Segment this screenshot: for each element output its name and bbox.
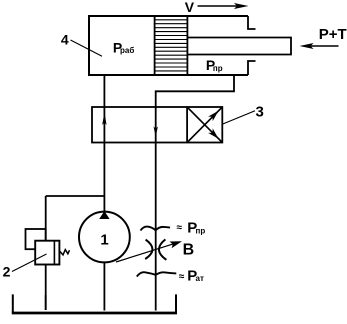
throttle B left arc	[145, 240, 152, 259]
relief valve 2 body	[35, 241, 59, 265]
piston rod	[187, 38, 291, 55]
wire: relief valve line into tank	[45, 295, 47, 310]
wire: branch to relief valve	[46, 195, 105, 197]
svg-text:4: 4	[61, 31, 69, 47]
svg-text:В: В	[183, 241, 195, 258]
leader line 4	[71, 40, 103, 56]
svg-text:≈: ≈	[179, 271, 185, 282]
svg-text:3: 3	[256, 103, 264, 120]
svg-text:P+T: P+T	[319, 26, 347, 43]
pump 1 circle	[79, 212, 130, 263]
wire: cylinder rod chamber to valve	[156, 75, 234, 107]
wire: pump suction to tank	[103, 262, 105, 310]
piston hatch lines	[155, 20, 188, 71]
valve 3 body	[92, 107, 222, 143]
valve X diagonals	[187, 107, 222, 143]
leader line 3	[223, 111, 255, 124]
svg-text:V: V	[185, 0, 195, 15]
relief valve spring	[60, 250, 70, 255]
cylinder rod-end step top	[248, 16, 256, 29]
piston (hatched)	[155, 16, 188, 75]
svg-text:≈: ≈	[177, 222, 183, 233]
P+T arrowhead	[300, 43, 314, 49]
valve up arrowhead	[102, 112, 106, 125]
V arrow line	[198, 5, 240, 7]
X arrowhead SE	[208, 128, 218, 138]
throttle B right arc	[159, 239, 166, 259]
wire: cylinder left chamber to valve	[103, 75, 105, 107]
relief valve inner line	[53, 241, 55, 265]
throttle B arrowhead	[170, 241, 183, 248]
wire: relief valve drop line	[45, 196, 47, 241]
cylinder barrel (4)	[89, 16, 248, 75]
svg-text:пр: пр	[213, 64, 223, 73]
throttle B arrow line	[116, 244, 174, 262]
valve down arrowhead	[154, 126, 158, 136]
pump direction triangle	[99, 211, 109, 219]
wire: valve through-line right (to throttle/tank)	[155, 107, 157, 311]
svg-text:раб: раб	[120, 46, 134, 55]
throttle lower break (wavy)	[137, 272, 177, 276]
throttle upper break (wavy)	[141, 227, 171, 231]
svg-text:2: 2	[3, 263, 11, 279]
cylinder rod-end step bottom	[248, 61, 256, 75]
leader line 2	[12, 254, 47, 272]
valve section divider	[186, 107, 188, 143]
svg-text:1: 1	[100, 231, 108, 248]
wire: relief valve to tank	[45, 265, 47, 311]
svg-text:ат: ат	[196, 274, 204, 283]
X arrowhead NE	[208, 111, 218, 121]
svg-text:пр: пр	[196, 227, 206, 236]
V arrowhead	[234, 3, 249, 9]
wire: valve through-line left (to pump)	[103, 107, 105, 212]
relief valve pilot square	[26, 229, 46, 249]
tank	[13, 294, 176, 313]
P+T arrow line	[308, 45, 339, 47]
